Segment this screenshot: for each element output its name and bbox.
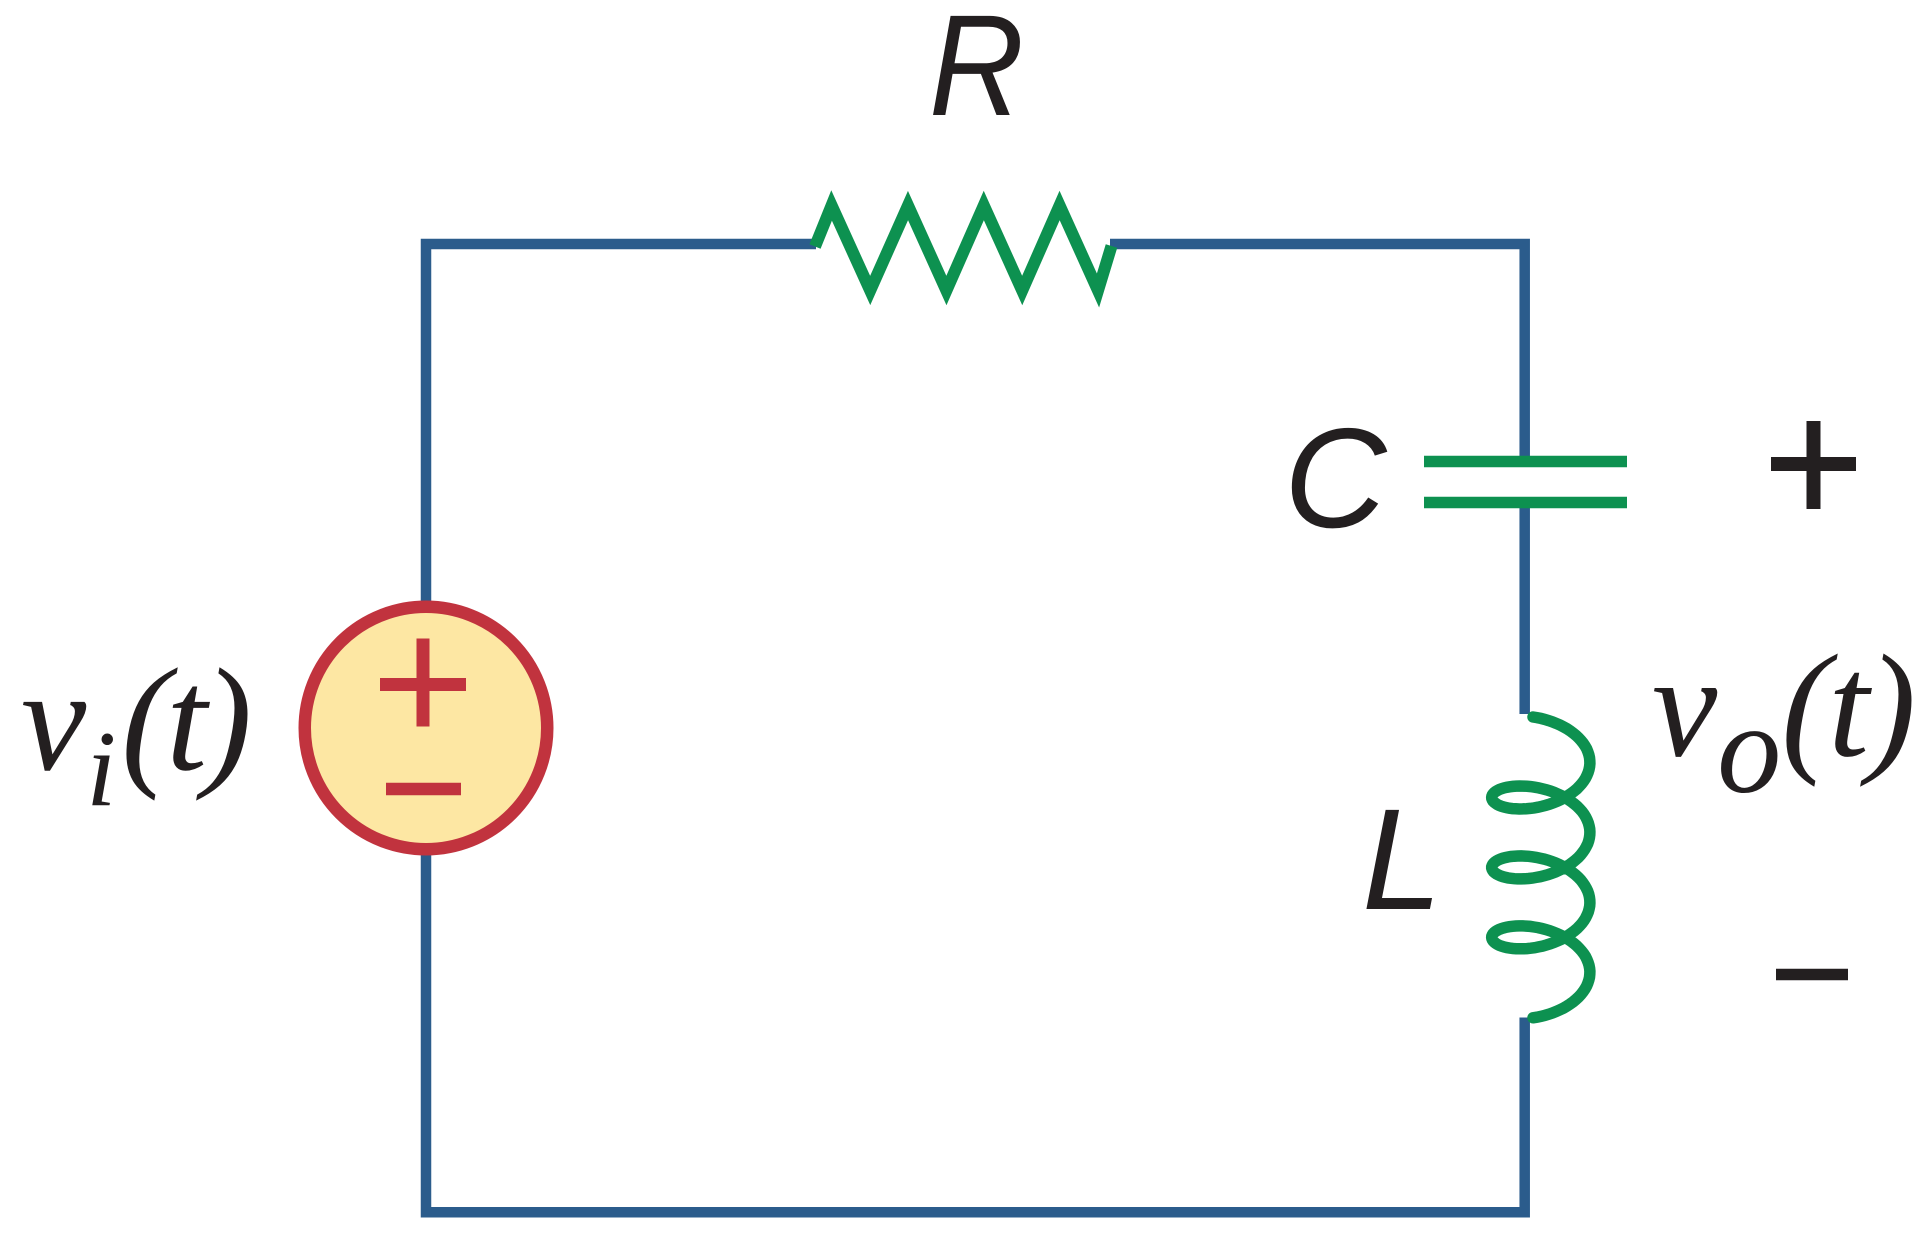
inductor L coil (1492, 717, 1590, 1018)
output plus sign (1771, 457, 1856, 471)
resistor R zigzag (815, 206, 1112, 291)
svg-text:L: L (1362, 779, 1442, 940)
capacitor C top plate (1424, 456, 1627, 468)
output minus sign (1776, 969, 1848, 981)
voltage source vi circle (305, 607, 548, 850)
source minus sign (386, 783, 461, 796)
svg-text:C: C (1284, 399, 1388, 558)
svg-text:R: R (929, 0, 1024, 146)
capacitor C bottom plate (1424, 497, 1627, 509)
svg-text:vi(t): vi(t) (21, 638, 248, 829)
source plus sign (380, 678, 466, 691)
wire top-left: from source up and right to resistor (426, 244, 816, 608)
wire bottom loop: inductor down, across, up to source (426, 848, 1525, 1212)
wire top-right: resistor to capacitor (1110, 244, 1525, 456)
wire capacitor to inductor (1519, 505, 1530, 714)
svg-text:vo(t): vo(t) (1652, 625, 1914, 821)
